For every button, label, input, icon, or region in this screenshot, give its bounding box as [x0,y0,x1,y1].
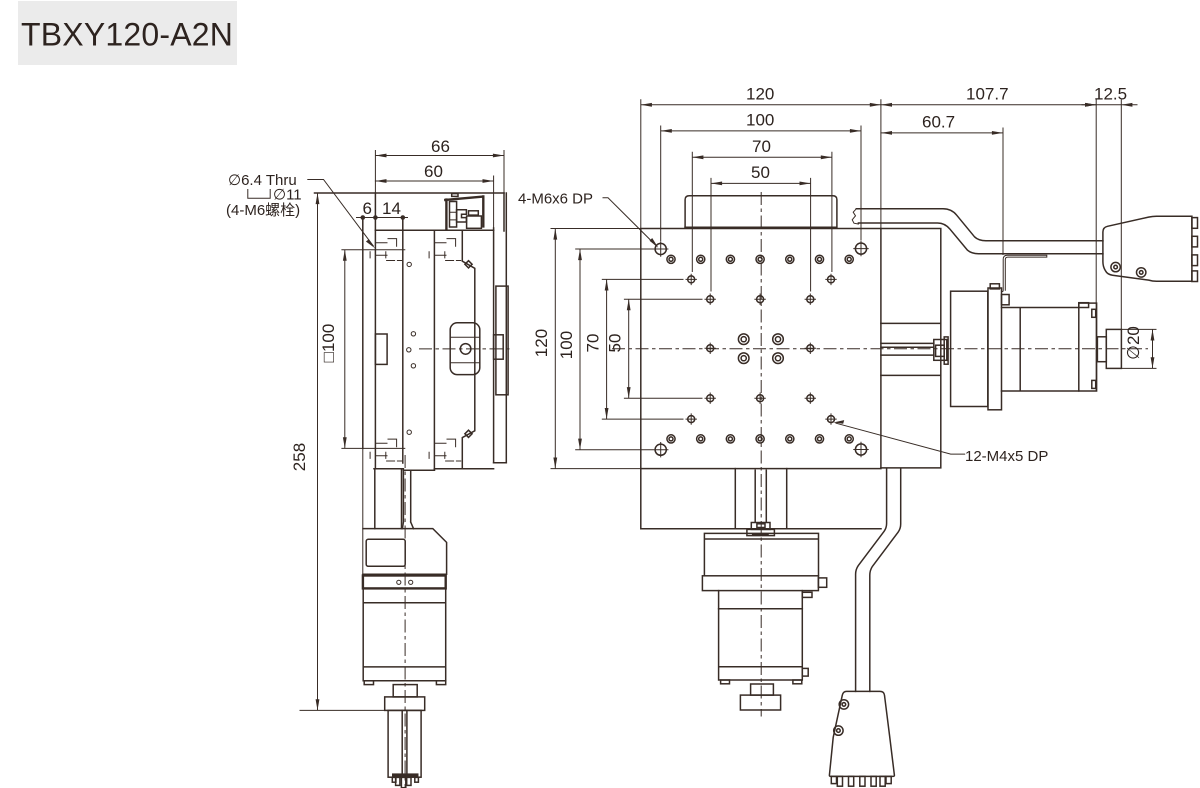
bottom motor feet [721,680,730,684]
svg-text:258: 258 [290,443,309,471]
motor bracket inner housing [366,539,405,566]
leadscrew to side motor [881,343,934,355]
bottom motor neck [719,591,803,609]
top terminal bracket: clamp [445,196,483,228]
dim 50 (top) [711,178,811,291]
dim 60.7 [881,128,1003,255]
side view: plate joint line 2 [433,230,435,470]
thin plate cap [990,284,999,289]
bottom motor knob [740,695,780,710]
svg-text:107.7: 107.7 [966,85,1009,104]
svg-text:120: 120 [746,85,774,104]
top terminal bracket: lower right block [467,216,482,228]
svg-text:14: 14 [382,199,401,218]
screw housing below plate [735,469,786,529]
svg-text:66: 66 [431,137,450,156]
4x M6 corner holes [654,242,668,256]
svg-text:12-M4x5 DP: 12-M4x5 DP [965,448,1048,465]
side view: outer right plate line [505,193,507,463]
bottom connector pins [831,776,836,783]
motor bracket block [363,529,447,575]
left motor body [363,588,446,680]
svg-text:4-M6x6 DP: 4-M6x6 DP [518,191,593,208]
svg-text:∅11: ∅11 [273,187,302,204]
counterbore hole row bottom [667,435,675,443]
center counterbore group [738,334,749,345]
notch diamond top [465,261,472,268]
right bracket block [881,229,941,468]
top terminal bracket: center block [457,210,467,222]
dim 107.7 [881,100,1096,391]
bottom motor shaft step [751,684,774,695]
top terminal bracket: right screw block [469,211,479,215]
plate right tab [1002,295,1010,305]
dim 120 (top) [641,100,881,229]
side view: leadscrew end cap [494,335,504,359]
svg-text:60.7: 60.7 [922,113,955,132]
left motor lower cylinder [388,710,421,777]
svg-text:50: 50 [751,163,770,182]
side motor gearbox column [951,291,988,406]
conduit down to bottom connector [856,469,901,692]
side view: small holes on joint plate [407,262,411,266]
dim 70 (left) [602,279,683,419]
side view: top surface line of moving tongue [315,192,505,194]
band right tab [818,578,826,587]
knob boss center hole [460,344,471,355]
neck right tab [802,592,812,597]
side motor knob [1106,329,1121,368]
cable tube upper [856,209,1103,254]
cylinder dark collar [392,773,419,777]
svg-text:60: 60 [424,162,443,181]
side view: tongue left face / body left edge [374,193,376,469]
screw end block [934,340,947,361]
dim 50 (left) [624,299,702,398]
side view: knob boss (rounded) [450,323,480,375]
svg-text:120: 120 [532,329,551,357]
dim 100 (left) [576,249,653,450]
svg-text:6: 6 [363,199,372,218]
left motor knob [385,697,425,711]
top terminal bracket: cap [452,194,458,197]
dim square-100 [342,250,405,449]
tongue (moving table extension above plate) [685,196,837,228]
dim 12.5 (arrows outside) [1082,100,1137,330]
lower column below body [375,469,402,529]
svg-text:50: 50 [606,334,625,353]
tube broken end [852,209,858,224]
side view: plate joint line 1 [402,218,404,464]
bottom pins [392,777,396,782]
title block background [18,1,237,65]
bottom connector screws [839,700,848,709]
side motor shaft boss [1097,337,1106,362]
dim 258 [300,193,385,710]
knob boss tangent lines [450,337,480,362]
flange corner squares [1092,309,1096,317]
dim 100 (top) [661,126,861,241]
cylinder inner screw lines [402,710,407,773]
side view: body right edge [493,228,495,463]
side view: moving stage profile with notches [462,230,475,469]
top connector ribs [1192,218,1198,229]
svg-text:70: 70 [752,137,771,156]
dim 120 (left) [551,229,641,469]
side motor flange [1079,303,1097,391]
side view: motor mount plate edge-on [496,286,508,395]
top terminal bracket: terminal strip [450,202,457,228]
bottom motor clamp band [702,576,818,591]
hidden corner marks top row [370,239,402,261]
dim 6 / 14 with dots [357,218,408,251]
side view: left side tab [375,334,387,364]
top view vertical centerline [760,192,762,717]
svg-text:(4-M6螺栓): (4-M6螺栓) [226,202,300,219]
main plate 120x120 [641,229,881,469]
flange cap [1079,303,1089,308]
notch diamond bottom [465,430,472,437]
left motor shaft step [393,685,417,697]
body right tab [802,668,808,676]
dim 66 [375,151,504,194]
side view: tongue right face [503,193,505,231]
side motor face and body [1002,308,1079,392]
leadscrew below plate [755,470,766,522]
12x M4 holes [686,274,696,284]
side view: body top edge [375,229,493,231]
dim 60 [375,176,493,228]
svg-text:12.5: 12.5 [1094,85,1127,104]
bottom motor body [719,609,803,680]
svg-text:□100: □100 [319,324,338,363]
lower leadscrew shaft [402,470,413,528]
thin L bracket under tube [1002,255,1047,291]
counterbore hole row top [667,255,675,263]
bottom motor adapter [704,533,818,575]
tongue bold bottom segments [686,226,832,228]
svg-text:100: 100 [557,331,576,359]
svg-text:100: 100 [746,111,774,130]
side view vertical centerline [404,455,406,787]
side view: bottom edges of stacked plates [374,463,506,471]
side view: horizontal centerline through knob [419,348,512,350]
bottom connector body [829,691,894,776]
leader line to counterbore hole [308,180,373,246]
clamp band with screws [363,576,446,589]
svg-text:∅20: ∅20 [1124,326,1143,360]
top view horizontal centerline [612,348,1148,350]
hidden corner marks bottom row [370,439,402,461]
base block below plate [641,469,881,529]
dim 70 (top) [692,152,832,271]
dim dia20 [1121,329,1156,368]
top connector box [1103,216,1192,281]
side motor thin plate [988,288,1002,410]
svg-text:70: 70 [584,334,603,353]
side view: table surface lower extension to motor bracket [362,448,364,575]
left motor feet [364,681,373,685]
top connector screws [1111,262,1120,271]
side view: table surface line (100 square face) [362,218,364,449]
svg-text:TBXY120-A2N: TBXY120-A2N [21,17,233,53]
screw coupling [751,523,770,530]
